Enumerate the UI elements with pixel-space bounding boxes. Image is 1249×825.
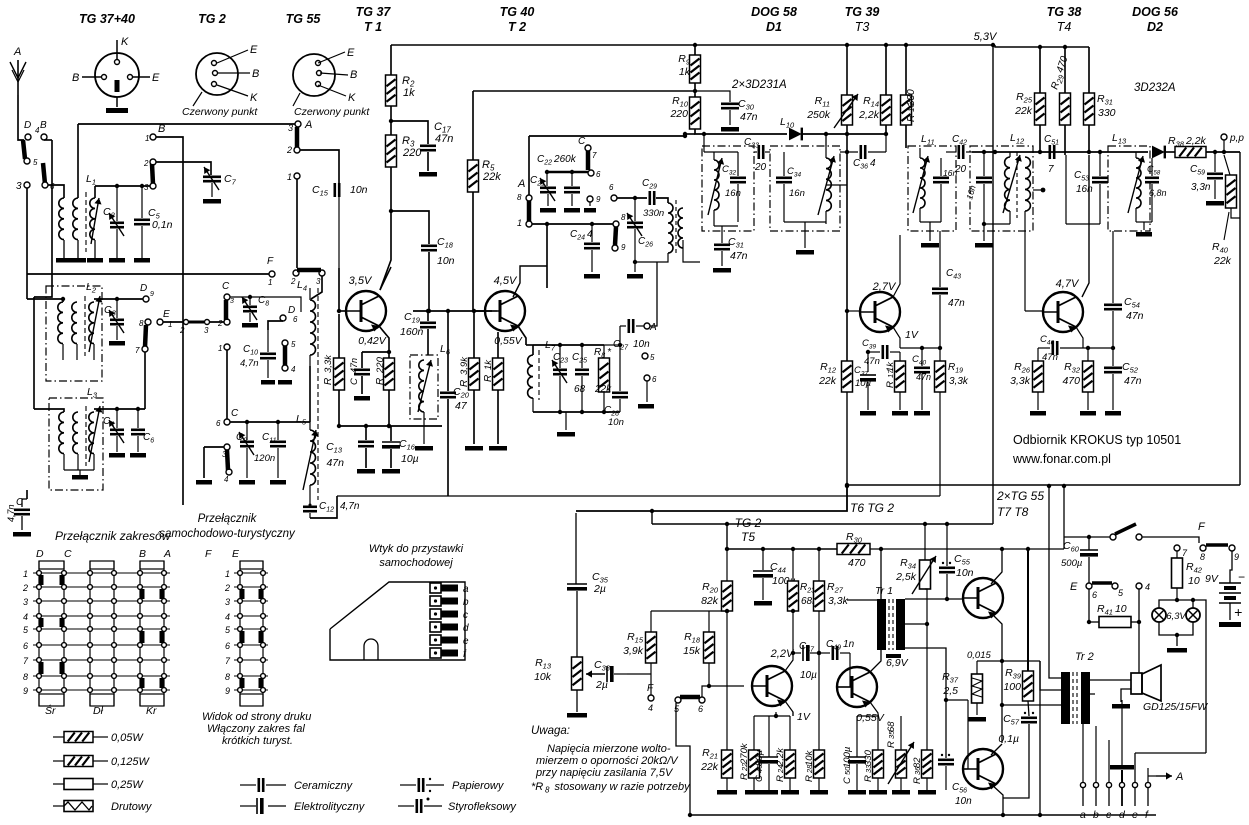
core L3 dashed xyxy=(85,406,87,466)
wire emitter tap xyxy=(362,351,389,353)
svg-text:C: C xyxy=(349,378,360,385)
wire x1064 riser xyxy=(1063,486,1065,549)
wire C20 branch xyxy=(447,311,449,391)
trimmer C7 xyxy=(203,176,221,179)
ground C9 xyxy=(239,480,255,485)
svg-text:2: 2 xyxy=(290,277,296,286)
svg-text:A: A xyxy=(13,46,21,58)
svg-text:50µ: 50µ xyxy=(754,749,765,766)
diode D2 xyxy=(1152,146,1165,159)
svg-text:c: c xyxy=(463,610,468,621)
svg-text:TG 39: TG 39 xyxy=(845,5,880,19)
switch grid 2 rows xyxy=(234,572,268,574)
wire 6 to L1 xyxy=(48,185,64,198)
ground R21 xyxy=(717,790,737,795)
node C t2 xyxy=(585,145,591,151)
coil L1 winding b xyxy=(73,198,78,240)
core arrow IF2 xyxy=(818,156,834,215)
ground osc xyxy=(565,412,567,430)
transistor T7 xyxy=(963,578,1003,618)
svg-text:Śr: Śr xyxy=(45,704,56,717)
svg-text:22k: 22k xyxy=(1213,255,1232,267)
svg-text:2: 2 xyxy=(224,583,230,593)
wire det to boxes xyxy=(825,134,827,146)
svg-text:8 stosowany w razie potrzeby: 8 stosowany w razie potrzeby xyxy=(545,781,691,795)
box L3 dashed xyxy=(49,398,103,490)
node 5 t5 xyxy=(675,697,681,703)
transformer Tr2 core xyxy=(1061,672,1070,724)
node 7 contact xyxy=(142,346,148,352)
node 6C xyxy=(224,419,230,425)
svg-text:F: F xyxy=(205,548,212,560)
switch blade A-2 xyxy=(295,127,300,148)
coil L1 winding a xyxy=(59,198,64,240)
node F contact xyxy=(269,271,275,277)
legend Ceramiczny xyxy=(240,784,256,786)
svg-text:470: 470 xyxy=(1062,375,1080,387)
core arrow L6 xyxy=(418,360,431,412)
svg-text:20: 20 xyxy=(754,162,767,173)
ground C5 xyxy=(134,258,150,263)
resistor R32 470 xyxy=(1087,348,1089,361)
svg-text:9V: 9V xyxy=(1205,573,1219,585)
transistor T1 xyxy=(346,291,386,331)
wire T8 collector xyxy=(991,744,1002,755)
ground socket1 xyxy=(106,108,128,113)
resistor R7 1k xyxy=(497,332,499,358)
svg-text:E: E xyxy=(347,47,355,59)
switch blade 5-6 xyxy=(43,163,45,184)
resistor R16 330 xyxy=(905,45,907,95)
ground C8 xyxy=(242,323,258,328)
wire 1c down xyxy=(296,179,298,268)
svg-text:6,9V: 6,9V xyxy=(886,657,909,669)
svg-text:2: 2 xyxy=(286,145,292,155)
box L12 dashed xyxy=(970,146,1033,231)
svg-text:22k: 22k xyxy=(818,375,837,387)
resistor R6 3,9k xyxy=(473,311,475,358)
capacitor C38 2u xyxy=(586,673,605,675)
ground C14 xyxy=(354,396,370,401)
node 3d contact xyxy=(319,270,325,276)
svg-text:R: R xyxy=(906,115,917,122)
core arrow L3 xyxy=(89,406,100,462)
capacitor C50 100u xyxy=(856,716,858,757)
svg-text:T 2: T 2 xyxy=(508,20,526,34)
capacitor C46b 50u xyxy=(768,716,770,757)
capacitor C39 47n xyxy=(868,351,880,353)
wire rail down xyxy=(992,45,994,524)
resistor R15 3,9k xyxy=(650,611,652,632)
blade 8-9b xyxy=(615,227,616,245)
coil L3 winding a xyxy=(59,412,64,454)
wire osc col xyxy=(546,224,548,288)
svg-text:Tr 2: Tr 2 xyxy=(1075,651,1094,663)
trimmer C2 xyxy=(116,186,118,221)
svg-text:Papierowy: Papierowy xyxy=(452,780,505,792)
svg-text:6,3V: 6,3V xyxy=(1166,611,1187,622)
wire osc gnd row xyxy=(533,411,620,413)
svg-text:2,5k: 2,5k xyxy=(895,571,917,583)
wire T8 base xyxy=(963,768,968,770)
resistor R33 330 xyxy=(877,716,879,750)
ground C44 xyxy=(754,601,772,606)
coil L3 winding c xyxy=(89,412,94,454)
svg-text:8: 8 xyxy=(139,319,144,328)
plug door bump xyxy=(364,639,378,660)
wire R5 down xyxy=(472,192,474,283)
svg-text:Czerwony punkt: Czerwony punkt xyxy=(182,106,258,118)
wire emitter to L7 xyxy=(526,344,533,346)
coil L12 b xyxy=(1025,157,1030,211)
wire audio rail xyxy=(727,548,837,550)
capacitor C44 100u xyxy=(762,549,764,570)
svg-text:D: D xyxy=(140,283,147,294)
ground C56 xyxy=(945,792,947,797)
ground C21 xyxy=(540,208,556,213)
coil L11 xyxy=(920,158,925,208)
svg-text:B: B xyxy=(158,123,165,135)
wire node5 xyxy=(646,381,648,402)
wire T8 emitter xyxy=(991,784,1003,815)
svg-text:82: 82 xyxy=(912,757,923,768)
svg-text:Przełącznik: Przełącznik xyxy=(198,513,258,525)
svg-text:6: 6 xyxy=(225,641,230,651)
resistor R25 22k xyxy=(1039,47,1041,93)
box IF1 dashed xyxy=(702,146,754,231)
wire T6 emitter xyxy=(870,702,878,716)
svg-text:R: R xyxy=(375,378,386,385)
svg-text:D: D xyxy=(24,120,31,131)
box L2 dashed xyxy=(46,286,102,381)
node 9 bat xyxy=(1229,545,1235,551)
svg-text:TG 38: TG 38 xyxy=(1047,5,1082,19)
svg-text:6,8n: 6,8n xyxy=(1149,188,1167,198)
node 5 contact xyxy=(24,158,30,164)
node 1 t2 xyxy=(526,221,532,227)
ground C24 xyxy=(584,274,600,279)
ground C1 xyxy=(13,532,31,537)
svg-text:1k: 1k xyxy=(483,359,494,370)
capacitor C10 4,7n xyxy=(267,330,269,352)
svg-text:6: 6 xyxy=(596,170,601,179)
ground L6 xyxy=(423,419,425,444)
ground C6 xyxy=(130,453,146,458)
capacitor C1 4,7n xyxy=(21,499,23,507)
svg-text:1k: 1k xyxy=(403,87,415,99)
node 4/B contact xyxy=(41,134,47,140)
switch grid 1 closed bars xyxy=(39,575,44,585)
capacitor C14 47n xyxy=(361,352,363,368)
core arrow IF1 xyxy=(708,158,722,215)
switch grid 2 rails xyxy=(239,561,241,706)
lamp 2 xyxy=(1186,608,1200,622)
ground R7 xyxy=(497,390,499,444)
resistor R9 1k xyxy=(694,45,696,55)
ground C30 xyxy=(721,127,739,132)
capacitor C51 7 xyxy=(1049,145,1052,159)
wire det row xyxy=(695,129,787,134)
resistor R39 100 xyxy=(1023,671,1034,701)
svg-text:GD125/15FW: GD125/15FW xyxy=(1143,701,1208,713)
coil L4 xyxy=(310,300,316,355)
transformer Tr1 core xyxy=(877,599,886,650)
pin lead a xyxy=(1082,788,1084,806)
node A t2 xyxy=(526,195,532,201)
svg-text:2: 2 xyxy=(217,319,223,328)
capacitor C56 10n xyxy=(938,758,954,761)
svg-text:Ceramiczny: Ceramiczny xyxy=(294,780,354,792)
svg-text:B: B xyxy=(72,72,79,84)
svg-text:9: 9 xyxy=(621,243,626,252)
ground L1b xyxy=(70,258,86,263)
node 9 t2 xyxy=(587,196,593,202)
svg-text:6: 6 xyxy=(609,183,614,192)
svg-text:16n: 16n xyxy=(1076,184,1093,195)
svg-text:R: R xyxy=(885,381,896,388)
svg-text:A: A xyxy=(649,322,657,333)
svg-text:Elektrolityczny: Elektrolityczny xyxy=(294,801,366,813)
wire C17 branch xyxy=(391,121,428,144)
svg-text:Widok od strony druku: Widok od strony druku xyxy=(202,711,311,723)
svg-text:Tr 1: Tr 1 xyxy=(875,585,893,597)
wire osc coil bottom xyxy=(635,253,668,262)
svg-text:4: 4 xyxy=(224,475,229,484)
svg-text:Dł: Dł xyxy=(93,705,104,717)
resistor R24 2,2k xyxy=(789,716,791,750)
ground lamps xyxy=(1167,648,1187,653)
svg-text:E: E xyxy=(250,44,258,56)
resistor R26 3,3k xyxy=(1037,348,1039,361)
svg-text:22k: 22k xyxy=(1014,105,1033,117)
wire E right xyxy=(163,321,183,323)
transistor T8 xyxy=(963,749,1003,789)
svg-text:a: a xyxy=(1080,809,1086,821)
svg-text:47n: 47n xyxy=(864,356,880,367)
svg-text:10n: 10n xyxy=(350,184,368,196)
svg-text:T6 TG 2: T6 TG 2 xyxy=(850,501,894,515)
core L2 dashed xyxy=(84,296,86,356)
svg-text:Przełącznik zakresów: Przełącznik zakresów xyxy=(55,529,172,543)
resistor R27 3,3k xyxy=(818,549,820,581)
ground IF2 xyxy=(796,250,814,255)
svg-text:C: C xyxy=(842,777,853,784)
svg-text:0,05W: 0,05W xyxy=(111,732,144,744)
svg-text:1: 1 xyxy=(268,278,272,287)
node 3 contact xyxy=(24,182,30,188)
switch blade 5-4e xyxy=(283,346,288,366)
resistor R12 22k xyxy=(846,311,848,361)
svg-text:3,9k: 3,9k xyxy=(623,645,644,657)
core arrow L1 xyxy=(91,198,99,244)
plug pins xyxy=(430,583,441,593)
wire IF1 top xyxy=(704,151,738,153)
resistor R8 22k xyxy=(603,345,605,358)
svg-text:A: A xyxy=(1175,771,1183,783)
svg-text:4,7n: 4,7n xyxy=(6,504,16,522)
capacitor C15 xyxy=(333,183,336,197)
resistor R13 10k xyxy=(572,657,583,690)
capacitor C54 47n xyxy=(1112,231,1114,303)
wire tr2 primary xyxy=(1049,486,1061,678)
svg-text:p,p: p,p xyxy=(1229,133,1244,144)
svg-text:R: R xyxy=(483,375,494,382)
resistor R31 330 xyxy=(1088,47,1090,93)
pin lead c xyxy=(1108,788,1110,806)
svg-text:68: 68 xyxy=(574,384,586,395)
svg-text:0,55V: 0,55V xyxy=(856,712,884,724)
capacitor C47 10u xyxy=(793,652,801,654)
svg-text:9: 9 xyxy=(23,686,28,696)
resistor R34 2,5k xyxy=(924,524,926,560)
capacitor C46 47n xyxy=(1038,347,1050,349)
svg-text:R: R xyxy=(804,775,815,782)
ground grp1 xyxy=(745,790,763,795)
svg-text:47n: 47n xyxy=(916,372,931,382)
svg-text:B: B xyxy=(40,120,47,131)
ground grp2 xyxy=(848,790,866,795)
resistor R22 270k xyxy=(753,716,755,750)
wire L6 top xyxy=(427,350,429,355)
wire lamps bottom xyxy=(1159,622,1193,635)
wire T4 emitter xyxy=(1076,327,1083,348)
capacitor C12 4,7n xyxy=(309,500,311,505)
ground C26 xyxy=(627,274,643,279)
svg-text:+: + xyxy=(1234,604,1242,620)
resistor R2 1k xyxy=(386,75,397,106)
svg-text:3: 3 xyxy=(144,183,149,192)
capacitor C60 500u xyxy=(1088,537,1090,550)
legend Drutowy xyxy=(53,805,64,807)
svg-text:1V: 1V xyxy=(905,329,919,341)
switch on-off xyxy=(1110,534,1116,540)
coil L3 winding b xyxy=(73,412,78,454)
svg-text:3: 3 xyxy=(230,298,234,305)
wire R11 down xyxy=(846,125,848,311)
wire 2-3 jumper xyxy=(183,321,224,323)
wire nodeA riser xyxy=(650,262,657,326)
switch blade 2-3 xyxy=(152,164,153,184)
wire T4 collector xyxy=(1082,155,1089,297)
wire R4 bottom xyxy=(388,390,390,426)
svg-text:6: 6 xyxy=(216,419,221,428)
ground L1c xyxy=(87,258,103,263)
svg-text:160n: 160n xyxy=(400,326,424,338)
wire 3 down xyxy=(26,188,28,274)
svg-text:1: 1 xyxy=(145,134,149,143)
ground C17 xyxy=(419,172,437,177)
svg-text:krótkich turyst.: krótkich turyst. xyxy=(222,735,293,747)
coil L6 xyxy=(419,360,424,412)
svg-text:4: 4 xyxy=(648,703,653,713)
svg-text:R: R xyxy=(459,380,470,387)
resistor R35 68 xyxy=(896,750,907,778)
wire fb long xyxy=(1039,661,1041,815)
ground C2 xyxy=(109,258,125,263)
svg-text:47n: 47n xyxy=(349,358,359,373)
ground L12 xyxy=(983,224,985,241)
svg-text:D1: D1 xyxy=(766,20,782,34)
legend 0,05W xyxy=(53,736,64,738)
core arrow L5 xyxy=(303,430,316,490)
resistor R10 220 xyxy=(690,97,701,129)
capacitor C6 xyxy=(137,409,139,428)
svg-text:5: 5 xyxy=(291,340,296,349)
svg-text:330: 330 xyxy=(1098,107,1116,119)
wire if3 row xyxy=(972,151,1148,153)
svg-text:0,55V: 0,55V xyxy=(494,335,522,347)
wire T3 emitter xyxy=(893,327,900,348)
resistor R21 22k xyxy=(726,611,728,750)
wire T3 emitter row xyxy=(900,347,940,349)
ground C16 xyxy=(382,469,400,474)
svg-text:R: R xyxy=(886,741,897,748)
svg-text:3,3n: 3,3n xyxy=(1191,182,1211,193)
diode D1a xyxy=(789,128,802,141)
svg-text:10n: 10n xyxy=(956,567,974,579)
svg-text:9: 9 xyxy=(225,686,230,696)
svg-text:4,5V: 4,5V xyxy=(494,275,518,287)
svg-text:7: 7 xyxy=(1048,164,1054,175)
svg-text:TG 37+40: TG 37+40 xyxy=(79,12,135,26)
node 2e xyxy=(224,319,230,325)
switch blade 8-7 xyxy=(145,325,146,347)
svg-text:7: 7 xyxy=(592,151,597,160)
svg-text:E: E xyxy=(152,72,160,84)
wire L2 left xyxy=(27,299,63,302)
wire tr2 sec xyxy=(1090,679,1131,681)
wire R42 down xyxy=(1176,588,1178,600)
capacitor C19 160n xyxy=(427,311,429,321)
wire C row xyxy=(230,421,310,423)
capacitor C34 16n xyxy=(783,152,785,176)
capacitor C16 10u xyxy=(390,426,392,441)
wire T2 emitter xyxy=(518,326,526,345)
wire bus T4 xyxy=(995,45,1089,47)
svg-text:2×3D231A: 2×3D231A xyxy=(731,79,787,91)
wire bus to R2 xyxy=(390,45,392,75)
svg-text:C: C xyxy=(754,775,765,782)
capacitor C5 xyxy=(141,186,143,218)
svg-text:1V: 1V xyxy=(797,711,811,723)
trimmer C4 xyxy=(116,409,118,428)
svg-text:20: 20 xyxy=(954,164,967,175)
svg-text:Kr: Kr xyxy=(146,705,157,717)
capacitor C49 1n xyxy=(824,652,830,654)
svg-text:c: c xyxy=(1106,809,1112,821)
capacitor C27 10n xyxy=(620,325,626,327)
svg-text:TG 40: TG 40 xyxy=(500,5,535,19)
wire 2 to C7 xyxy=(156,162,211,175)
wire T1 collector diag xyxy=(380,267,391,290)
node 9b xyxy=(612,245,618,251)
svg-text:68: 68 xyxy=(886,721,897,732)
wire L12 tap xyxy=(1033,189,1043,191)
wire L2 top xyxy=(94,298,146,300)
wire T1 emitter xyxy=(379,326,389,358)
svg-text:2,2k: 2,2k xyxy=(858,109,880,121)
node 1e xyxy=(224,344,230,350)
svg-text:E: E xyxy=(163,309,170,320)
transistor T4 xyxy=(1043,292,1083,332)
svg-text:8: 8 xyxy=(517,193,522,202)
transistor T5 xyxy=(752,666,792,706)
wire 6b right xyxy=(617,197,647,199)
svg-text:5,3V: 5,3V xyxy=(974,31,998,43)
svg-text:4: 4 xyxy=(35,126,40,135)
svg-text:0,42V: 0,42V xyxy=(358,335,386,347)
svg-text:47n: 47n xyxy=(1042,352,1058,363)
